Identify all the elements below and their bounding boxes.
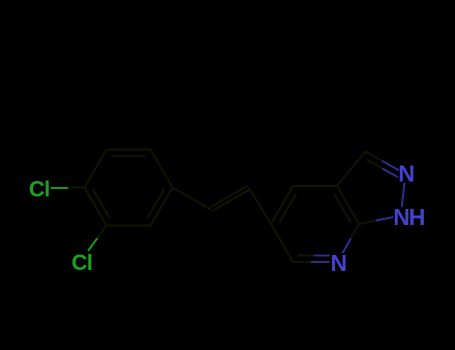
bond N2-N1 bbox=[402, 183, 405, 207]
wire C1'-Calpha bbox=[173, 188, 211, 210]
bond C7a-N7 bbox=[342, 224, 359, 253]
fusion C3a=C7a inner bbox=[334, 194, 351, 223]
wire benzene C5'-C6' bbox=[107, 225, 151, 227]
bond C3=N2 outer bbox=[366, 152, 399, 171]
svg-text:N: N bbox=[331, 250, 347, 276]
wire fusion C3a=C7a outer bbox=[337, 186, 359, 224]
pyridine C4=C5 inner bbox=[279, 194, 296, 223]
bond N7=C6 outer bbox=[293, 261, 329, 263]
vinyl Calpha=Cbeta double bbox=[210, 186, 250, 212]
wire benzene C6'=C1' outer bbox=[151, 188, 173, 226]
benzene C6'=C1' inner bbox=[147, 189, 164, 218]
wire benzene C3'-C4' bbox=[85, 150, 107, 188]
wire pyridine C4=C5 outer bbox=[271, 186, 293, 224]
bond C5'-Cl2 bbox=[88, 226, 106, 251]
benzene C4'=C5' inner bbox=[93, 189, 110, 218]
wire pyrazole C3a-C3 bbox=[337, 152, 366, 187]
wire pyridine C4-C3a bbox=[293, 185, 337, 187]
svg-text:Cl: Cl bbox=[29, 177, 50, 202]
svg-text:NH: NH bbox=[393, 204, 425, 230]
pyrazole C3=N2 inner bbox=[367, 160, 398, 178]
wire benzene C2'=C3' outer bbox=[107, 149, 151, 151]
wire benzene C1'-C2' bbox=[151, 150, 173, 188]
pyridine N7=C6 inner bbox=[298, 255, 329, 257]
wire Cbeta-C5 bbox=[249, 188, 271, 225]
bond N1-C7a bbox=[359, 217, 393, 224]
wire benzene C4'=C5' outer bbox=[85, 188, 107, 226]
benzene C2'=C3' inner bbox=[112, 155, 146, 157]
bond C4'-Cl1 bbox=[51, 187, 85, 190]
svg-text:N: N bbox=[398, 161, 414, 187]
svg-text:Cl: Cl bbox=[72, 250, 93, 275]
wire pyridine C6-C5 bbox=[271, 224, 293, 262]
